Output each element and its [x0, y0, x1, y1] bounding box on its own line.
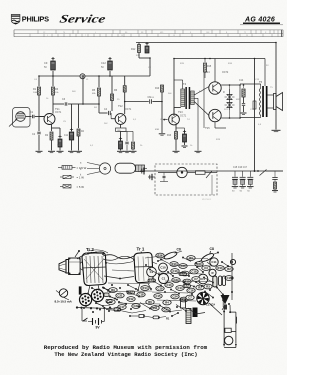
- svg-text:C24: C24: [173, 295, 178, 299]
- svg-text:R3: R3: [206, 285, 210, 289]
- svg-text:OC71: OC71: [160, 119, 166, 121]
- svg-text:C8: C8: [210, 247, 214, 251]
- svg-text:L: L: [95, 32, 96, 34]
- svg-text:AG 4026: AG 4026: [244, 16, 275, 23]
- svg-text:C11: C11: [211, 260, 217, 264]
- svg-text:NTC: NTC: [224, 109, 229, 111]
- svg-text:C18: C18: [192, 270, 197, 274]
- svg-text:Service: Service: [58, 12, 106, 25]
- svg-text:25: 25: [246, 35, 248, 37]
- svg-text:S6: S6: [125, 32, 127, 34]
- svg-text:C13: C13: [173, 269, 178, 273]
- svg-text:C16: C16: [189, 289, 194, 293]
- svg-text:OC71: OC71: [180, 115, 187, 118]
- svg-text:C7: C7: [194, 277, 198, 281]
- svg-text:R1: R1: [166, 317, 170, 321]
- svg-text:C48: C48: [206, 32, 209, 34]
- svg-text:TS5: TS5: [205, 127, 210, 130]
- svg-text:C12: C12: [101, 61, 106, 65]
- svg-text:R9: R9: [189, 256, 193, 260]
- svg-text:= 5 W: = 5 W: [77, 185, 85, 189]
- svg-text:C15: C15: [156, 294, 161, 298]
- svg-text:T4: T4: [63, 32, 65, 34]
- svg-text:Tr 1: Tr 1: [137, 247, 145, 252]
- svg-text:R2: R2: [227, 267, 231, 271]
- svg-text:45R: 45R: [155, 129, 159, 131]
- svg-text:Reproduced by Radio Museum wit: Reproduced by Radio Museum with permissi…: [44, 344, 208, 351]
- svg-text:R10: R10: [155, 88, 160, 90]
- svg-text:R8: R8: [141, 32, 143, 34]
- svg-text:C10: C10: [160, 266, 166, 270]
- svg-text:R4: R4: [165, 301, 169, 305]
- svg-text:C15 C16 C17: C15 C16 C17: [233, 167, 248, 169]
- svg-text:OC71: OC71: [55, 111, 62, 114]
- svg-text:R20: R20: [197, 262, 202, 266]
- svg-text:R16: R16: [158, 254, 163, 258]
- svg-text:C7: C7: [188, 296, 192, 300]
- svg-text:C13: C13: [167, 283, 172, 287]
- svg-text:M5170/03: M5170/03: [202, 199, 212, 201]
- svg-text:C23: C23: [181, 264, 186, 268]
- svg-text:The New Zealand Vintage Radio: The New Zealand Vintage Radio Society (I…: [54, 351, 197, 358]
- svg-text:R7: R7: [109, 300, 113, 304]
- svg-text:C2: C2: [150, 270, 154, 274]
- svg-text:C19: C19: [158, 287, 163, 291]
- svg-text:13: 13: [121, 35, 123, 37]
- svg-text:C9: C9: [44, 61, 48, 65]
- svg-text:R15: R15: [207, 66, 212, 68]
- svg-text:4R5: 4R5: [160, 32, 163, 34]
- svg-text:R12: R12: [129, 297, 134, 301]
- svg-text:C21: C21: [118, 294, 123, 298]
- svg-text:PHILIPS: PHILIPS: [22, 14, 49, 23]
- svg-text:8.5÷10.5 mA: 8.5÷10.5 mA: [55, 299, 73, 303]
- svg-text:T1: T1: [244, 32, 246, 34]
- svg-text:OC72: OC72: [222, 71, 229, 74]
- svg-text:1: 1: [47, 35, 48, 37]
- svg-text:C24: C24: [174, 278, 179, 282]
- svg-text:OC71: OC71: [125, 108, 132, 111]
- svg-text:R13: R13: [167, 135, 172, 137]
- svg-text:C2: C2: [43, 32, 45, 34]
- svg-text:R14: R14: [143, 286, 148, 290]
- svg-text:= 0.5 W: = 0.5 W: [77, 166, 87, 170]
- svg-text:7: 7: [85, 35, 86, 37]
- svg-text:R12: R12: [131, 48, 136, 51]
- svg-text:C1: C1: [162, 277, 166, 281]
- svg-text:19: 19: [173, 35, 175, 37]
- svg-text:TS2: TS2: [118, 105, 123, 108]
- svg-text:R10: R10: [218, 266, 223, 270]
- svg-text:C14: C14: [178, 286, 183, 290]
- svg-text:C14: C14: [239, 80, 244, 82]
- svg-text:Tr 2: Tr 2: [86, 247, 94, 252]
- svg-text:C3: C3: [204, 266, 208, 270]
- svg-text:C6: C6: [177, 248, 181, 252]
